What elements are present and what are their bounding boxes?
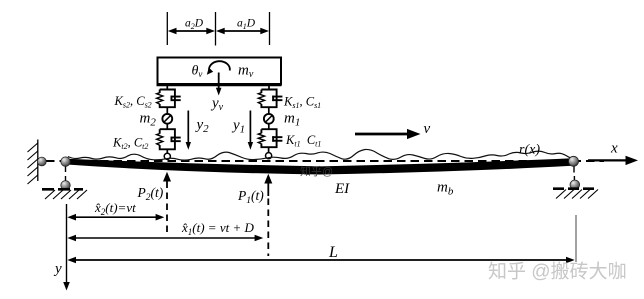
right ground [553,189,598,199]
right beam-end ball [569,156,579,166]
extension line right (L) [575,215,577,262]
stem m2 to tire unit [166,124,168,130]
stem to wheel mass m2 [166,107,168,114]
left beam-end ball [61,157,70,166]
svg-text:EI: EI [334,181,350,197]
link to right lower ball [573,167,575,181]
left lower roller ball [61,181,70,190]
link beam-end to lower ball [65,167,67,182]
pitch rotation arc arrow [209,61,230,72]
stem to wheel mass m1 [268,107,270,114]
arrow y2 [186,111,191,150]
road roughness r(x) [68,149,572,160]
contact circle wheel 1 [266,153,272,159]
svg-text:知乎@: 知乎@ [300,164,333,178]
right lower roller ball [570,180,580,190]
dimension arrow a2D [168,28,215,34]
svg-text:y: y [53,261,62,277]
beam (flexible, sagging) [67,158,572,174]
stem tire to contact wheel 1 [268,147,270,152]
svg-text:x̂2(t)=vt: x̂2(t)=vt [94,200,136,217]
svg-text:r(x): r(x) [519,143,540,158]
stem body to left suspension [166,85,168,90]
svg-text:知乎 @搬砖大咖: 知乎 @搬砖大咖 [488,261,627,283]
wheel mass m2 circle [162,114,172,124]
suspension unit Ks1/Cs1 (upper right) [258,90,282,108]
force P1(t) arrow [264,174,272,256]
vehicle body mv [158,58,282,85]
dimension arrow L [67,257,574,264]
wheel mass m1 circle [264,114,274,124]
svg-text:a2D: a2D [185,18,204,32]
undeformed beam axis (dashed) [46,160,604,162]
x axis arrow [588,156,638,165]
suspension unit Ks2/Cs2 (upper left) [157,90,181,108]
svg-text:L: L [328,244,338,261]
dimension arrow x1(t)=vt+D [67,235,263,242]
dimension arrow a1D [216,28,269,34]
dimension arrow x2(t)=vt [67,214,164,221]
y axis line [63,204,70,291]
dimension tick center [215,12,217,46]
dimension tick right (axle 1) [269,12,271,45]
force P2(t) arrow [163,172,171,234]
arrow yv [216,73,222,96]
svg-text:x: x [610,141,618,157]
wall roller ball [37,157,46,166]
left ground [42,189,87,199]
stem tire to contact wheel 2 [166,149,168,153]
arrow v [355,129,421,139]
svg-text:x̂1(t) = vt + D: x̂1(t) = vt + D [181,220,254,237]
tire unit Kt1/Ct1 (lower right) [258,129,282,147]
dimension tick left (axle 2) [166,12,168,45]
tire unit Kt2/Ct2 (lower left) [157,129,181,149]
svg-text:a1D: a1D [237,18,256,32]
svg-text:v: v [424,121,431,137]
left wall [28,140,38,185]
arrow y1 [248,111,253,150]
stem m1 to tire unit [268,124,270,130]
stem body to right suspension [268,85,270,90]
contact circle wheel 2 [164,153,170,159]
